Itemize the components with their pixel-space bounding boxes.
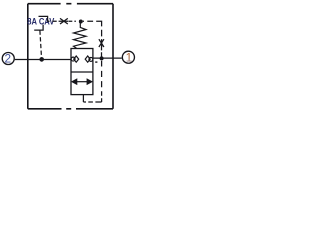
pilot line (dashed) down to port-2 line [40, 31, 42, 60]
svg-text:1: 1 [126, 50, 133, 64]
check seat diamond (left) [74, 56, 79, 62]
valve envelope box [71, 49, 93, 95]
pilot dashes before X [52, 20, 68, 22]
small pilot dash near envelope right edge [95, 61, 97, 63]
envelope position divider [71, 71, 93, 73]
port 2 circle [2, 53, 14, 65]
check seat diamond (right) [85, 56, 90, 62]
callout jog below label [34, 25, 43, 31]
pilot dashes to right corner [83, 21, 102, 47]
cartridge enclosure boundary (long-dash rectangle) [28, 4, 113, 109]
pilot segment X to port-1 junction [101, 47, 103, 57]
junction node on pilot line [79, 20, 83, 24]
callout jog above label [39, 16, 50, 21]
spring (zigzag) from pilot junction to envelope top [74, 22, 87, 49]
svg-text:2: 2 [5, 51, 12, 65]
plugged port X symbol (right) [99, 39, 104, 47]
spool double arrow [72, 79, 93, 85]
pilot dashes between X and junction [68, 20, 76, 22]
pilot dashed vertical below port-1 junction [101, 61, 103, 102]
junction node on port-2 line [39, 57, 44, 62]
check ball (right) [89, 57, 93, 61]
drain dashed horizontal [83, 101, 101, 103]
port 1 line [93, 57, 122, 59]
port 2 line [15, 59, 71, 61]
svg-text:8A CAV: 8A CAV [27, 16, 54, 26]
plugged port X symbol (left) [60, 18, 68, 24]
check ball (left) [71, 57, 75, 61]
junction node on port-1 line [100, 56, 104, 60]
drain stub from envelope bottom [82, 95, 84, 102]
port 1 circle [122, 51, 134, 63]
